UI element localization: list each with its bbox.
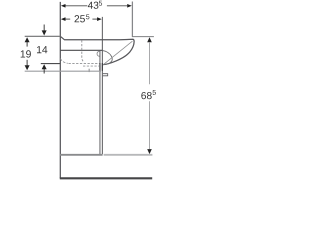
wire: 68.5 top extension bracket bbox=[132, 36, 154, 38]
wire: top reference extension line left bbox=[25, 35, 61, 37]
wire: hidden overflow dashed vertical bbox=[82, 40, 85, 62]
wire: basin front edge + cabinet front vertical V1 bbox=[59, 2, 61, 179]
node 25.5 dimension bbox=[61, 14, 102, 22]
node 68.5 dimension bbox=[141, 37, 156, 154]
node 14 dimension bbox=[37, 25, 47, 74]
wire: hidden trap outlet dash bbox=[88, 69, 90, 72]
node 19 dimension bbox=[21, 37, 31, 70]
wire: wall extension vertical bbox=[131, 2, 133, 37]
wire: basin apron bottom line bbox=[60, 49, 102, 51]
wire: hidden trap dashed row bbox=[83, 65, 100, 67]
wire: bowl inner diagonal bbox=[103, 41, 132, 64]
node basin profile outline bbox=[60, 36, 134, 64]
wire: 25.5 extension line continuing as trap pipe front bbox=[101, 17, 103, 154]
node trap bend small arc bbox=[97, 51, 100, 56]
node 43.5 dimension bbox=[61, 1, 132, 9]
wire: floor ground line bbox=[60, 177, 152, 179]
wire: apron bottom reference line left bbox=[41, 63, 61, 65]
wire: bottom reference line right part bbox=[104, 154, 153, 156]
node waste pipe tab bbox=[103, 74, 108, 76]
wire: cabinet bottom line bbox=[60, 154, 103, 156]
wire: hidden bowl bottom curve from front bbox=[60, 59, 67, 64]
wire: trap overlap darker segment bbox=[99, 63, 101, 71]
wire: hidden bowl bottom dashed row bbox=[69, 63, 100, 65]
node bowl underside bulge bbox=[103, 51, 113, 65]
wire: lowest point reference gray line bbox=[25, 70, 101, 72]
wire: trap cover rear line bbox=[99, 51, 101, 155]
